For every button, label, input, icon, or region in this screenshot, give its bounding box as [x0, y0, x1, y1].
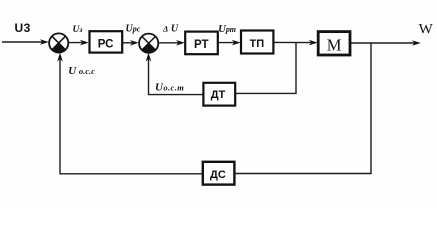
svg-text:Uрт: Uрт	[218, 24, 236, 35]
svg-text:ДТ: ДТ	[211, 89, 226, 101]
svg-text:РТ: РТ	[194, 39, 209, 51]
svg-text:U о.с.с: U о.с.с	[68, 65, 95, 77]
svg-text:U3: U3	[15, 21, 31, 35]
svg-text:Uо.с.т: Uо.с.т	[155, 82, 184, 94]
svg-text:ДС: ДС	[210, 169, 226, 181]
svg-text:ТП: ТП	[249, 38, 264, 50]
svg-text:М: М	[327, 35, 342, 54]
svg-text:Δ U: Δ U	[162, 24, 179, 35]
svg-text:Uз: Uз	[73, 25, 83, 35]
svg-text:РС: РС	[98, 38, 114, 50]
svg-text:W: W	[419, 22, 434, 38]
svg-text:Uрс: Uрс	[126, 24, 141, 35]
